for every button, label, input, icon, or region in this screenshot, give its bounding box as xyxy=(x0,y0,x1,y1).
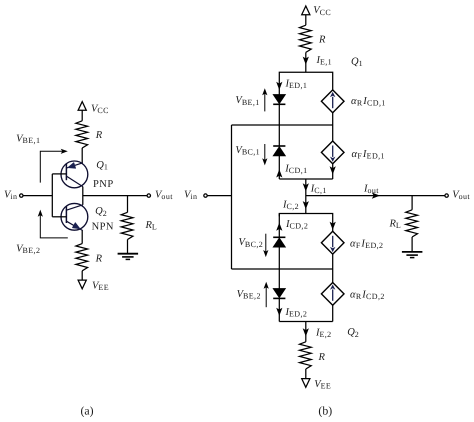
terminal Vout (a) xyxy=(147,194,150,197)
current source alphaR ICD,1 (diamond) xyxy=(321,90,344,113)
voltage arrow VBE,1 (b) xyxy=(262,88,267,111)
resistor RL (a) xyxy=(121,212,133,239)
label Q2 (b) xyxy=(347,327,359,339)
bottom rail Q2 model xyxy=(279,321,332,323)
current label ICD,1 xyxy=(284,164,307,176)
svg-text:VBE,1: VBE,1 xyxy=(16,134,40,146)
wire diamond4 to bottom rail xyxy=(332,305,334,321)
ground (b) xyxy=(402,252,423,258)
bottom rail Q1 model xyxy=(279,178,332,180)
resistor R upper (a) xyxy=(76,121,88,148)
svg-text:IED,2: IED,2 xyxy=(285,307,308,319)
svg-text:VEE: VEE xyxy=(314,379,331,391)
wire output to RL (a) xyxy=(127,196,129,213)
caption (a) xyxy=(81,403,94,417)
svg-text:VCC: VCC xyxy=(313,5,331,17)
current source alphaF IED,2 (diamond) xyxy=(321,231,344,254)
voltage arrow VBC,1 (b) xyxy=(262,144,267,165)
wire top rail Q1 model xyxy=(279,72,332,94)
wire VCC to R (a) xyxy=(81,110,83,121)
wire diode to mid rail (upper left) xyxy=(278,104,280,146)
svg-text:VBE,2: VBE,2 xyxy=(16,244,40,256)
power VCC (a) xyxy=(78,102,86,111)
svg-text:(b): (b) xyxy=(318,403,332,417)
wire top rail to diamond3 with arrow xyxy=(330,222,336,230)
wire diamond2 to bottom rail with arrow xyxy=(330,164,336,179)
wire Vin to base bus (a) xyxy=(23,195,52,197)
voltage arrow VBC,2 (b) xyxy=(263,234,268,257)
current label IC,1 xyxy=(310,184,327,196)
diode VBC,1 (points up) xyxy=(273,146,285,156)
svg-text:VBE,2: VBE,2 xyxy=(237,289,261,301)
label alphaR ICD,2 xyxy=(350,290,385,302)
current label Iout xyxy=(363,184,379,196)
svg-text:IC,1: IC,1 xyxy=(310,184,327,196)
current arrow IED,1 xyxy=(276,82,282,90)
value label R upper (b) xyxy=(318,35,326,46)
wire output node to Vout with Iout arrow (b) xyxy=(306,193,445,199)
label VBC,2 (b) xyxy=(239,237,264,249)
label VBC,1 (b) xyxy=(235,145,260,157)
label alphaF IED,2 xyxy=(350,238,383,250)
label alphaR ICD,1 xyxy=(351,96,386,108)
voltage arrow VBE,2 (a) xyxy=(38,210,68,238)
label VBE,2 (a) xyxy=(16,244,40,256)
wire R to Q1 top rail with IE,1 arrow xyxy=(303,52,309,72)
voltage arrow VBE,2 (b) xyxy=(264,282,269,308)
svg-text:Vout: Vout xyxy=(452,190,470,202)
svg-text:VBC,1: VBC,1 xyxy=(235,145,260,157)
svg-text:VBC,2: VBC,2 xyxy=(239,237,264,249)
power VCC (b) xyxy=(302,6,310,15)
label Q1 (a) xyxy=(96,160,108,172)
mid rail Q1 model xyxy=(232,124,333,126)
wire diamond1 to diamond2 xyxy=(332,113,334,141)
terminal Vin (b) xyxy=(204,194,207,197)
wire collector node down with IC,1 arrow xyxy=(303,179,309,214)
wire base bus vertical (b) xyxy=(231,125,233,269)
diode VBE,2 (points down) xyxy=(273,289,285,299)
current label IED,2 xyxy=(285,307,308,319)
wire R to VEE (b) xyxy=(305,369,307,379)
current label IE,1 xyxy=(316,55,333,67)
mid rail Q2 model xyxy=(232,268,333,270)
value label RL (a) xyxy=(145,220,158,232)
power VEE (b) xyxy=(302,379,310,388)
resistor RL (b) xyxy=(406,210,418,237)
transistor Q1 PNP xyxy=(61,161,88,188)
label VEE (b) xyxy=(314,379,331,391)
svg-text:Iout: Iout xyxy=(363,184,379,196)
svg-text:VBE,1: VBE,1 xyxy=(235,95,259,107)
voltage arrow VBE,1 (a) xyxy=(40,149,68,183)
wire R to VEE (a) xyxy=(81,271,83,280)
svg-text:αFIED,1: αFIED,1 xyxy=(352,149,385,161)
resistor R upper (b) xyxy=(300,25,312,52)
svg-text:IE,2: IE,2 xyxy=(315,327,332,339)
transistor Q2 NPN xyxy=(61,203,88,230)
wire top-left branch with ICD,2 arrow (up) xyxy=(276,214,282,238)
svg-text:(a): (a) xyxy=(81,403,94,417)
svg-text:VEE: VEE xyxy=(92,280,109,292)
svg-text:VCC: VCC xyxy=(91,104,109,116)
svg-text:αFIED,2: αFIED,2 xyxy=(350,238,383,250)
diode VBE,1 (points down) xyxy=(273,95,285,105)
value label R upper (a) xyxy=(95,130,103,141)
label VBE,2 (b) xyxy=(237,289,261,301)
diode VBC,2 (points up) xyxy=(273,237,285,247)
label VCC (a) xyxy=(91,104,109,116)
svg-text:IC,2: IC,2 xyxy=(282,199,299,211)
label NPN xyxy=(92,222,114,233)
current label IE,2 xyxy=(315,327,332,339)
svg-text:R: R xyxy=(318,35,326,46)
caption (b) xyxy=(318,403,332,417)
label VBE,1 (b) xyxy=(235,95,259,107)
label VCC (b) xyxy=(313,5,331,17)
wire Vin to base bus (b) xyxy=(207,195,231,197)
current source alphaR ICD,2 (diamond) xyxy=(321,283,344,306)
svg-text:Vin: Vin xyxy=(184,190,197,202)
svg-text:RL: RL xyxy=(389,219,402,231)
current label IED,1 xyxy=(285,78,308,90)
wire diode to bottom rail with ICD,1 arrow xyxy=(276,156,282,179)
svg-text:αRICD,1: αRICD,1 xyxy=(351,96,386,108)
svg-text:Q1: Q1 xyxy=(351,56,363,68)
wire to Q1 base xyxy=(52,173,66,175)
svg-text:NPN: NPN xyxy=(92,222,114,233)
label alphaF IED,1 xyxy=(352,149,385,161)
svg-text:R: R xyxy=(95,254,103,265)
current label ICD,2 xyxy=(285,219,308,231)
label VEE (a) xyxy=(92,280,109,292)
wire diamond3 to diamond4 xyxy=(332,254,334,282)
svg-text:Q1: Q1 xyxy=(96,160,108,172)
label PNP xyxy=(93,179,114,190)
svg-text:Vin: Vin xyxy=(4,190,17,202)
label VBE,1 (a) xyxy=(16,134,40,146)
wire Q1 collector to output node (a) xyxy=(82,187,84,205)
wire output node to Vout terminal (a) xyxy=(83,195,147,197)
wire to Q2 base xyxy=(52,216,66,218)
svg-text:αRICD,2: αRICD,2 xyxy=(350,290,385,302)
svg-text:Q2: Q2 xyxy=(347,327,359,339)
label Q1 (b) xyxy=(351,56,363,68)
svg-text:ICD,1: ICD,1 xyxy=(284,164,307,176)
svg-text:Q2: Q2 xyxy=(95,206,107,218)
value label RL (b) xyxy=(389,219,402,231)
svg-text:ICD,2: ICD,2 xyxy=(285,219,308,231)
label Vout (a) xyxy=(155,190,173,202)
label Vin (a) xyxy=(4,190,17,202)
wire bottom rail to R with IE,2 arrow xyxy=(303,322,309,342)
wire VCC to R (b) xyxy=(305,15,307,26)
label Vin (b) xyxy=(184,190,197,202)
wire diode to mid rail (lower left) xyxy=(278,247,280,288)
wire R to Q1 emitter (a) xyxy=(81,148,83,163)
svg-text:R: R xyxy=(318,352,326,363)
svg-text:RL: RL xyxy=(145,220,158,232)
wire RL to ground (a) xyxy=(127,240,129,254)
ground (a) xyxy=(118,254,139,260)
wire Q2 emitter to R (a) xyxy=(81,231,83,244)
wire output to RL (b) xyxy=(411,196,413,210)
svg-text:PNP: PNP xyxy=(93,179,114,190)
current label IC,2 xyxy=(282,199,299,211)
value label R lower (a) xyxy=(95,254,103,265)
resistor R lower (b) xyxy=(300,342,312,369)
svg-text:IE,1: IE,1 xyxy=(316,55,333,67)
terminal Vout (b) xyxy=(445,194,448,197)
top rail Q2 model xyxy=(279,214,332,232)
terminal Vin (a) xyxy=(20,194,23,197)
label Q2 (a) xyxy=(95,206,107,218)
resistor R lower (a) xyxy=(76,244,88,271)
svg-text:Vout: Vout xyxy=(155,190,173,202)
svg-text:R: R xyxy=(95,130,103,141)
current source alphaF IED,1 (diamond) xyxy=(321,141,344,164)
power VEE (a) xyxy=(78,280,86,289)
wire RL to ground (b) xyxy=(411,237,413,252)
wire diode to bottom rail with IED,2 arrow xyxy=(276,298,282,321)
value label R lower (b) xyxy=(318,352,326,363)
label Vout (b) xyxy=(452,190,470,202)
svg-text:IED,1: IED,1 xyxy=(285,78,308,90)
wire base bus vertical (a) xyxy=(51,174,53,217)
